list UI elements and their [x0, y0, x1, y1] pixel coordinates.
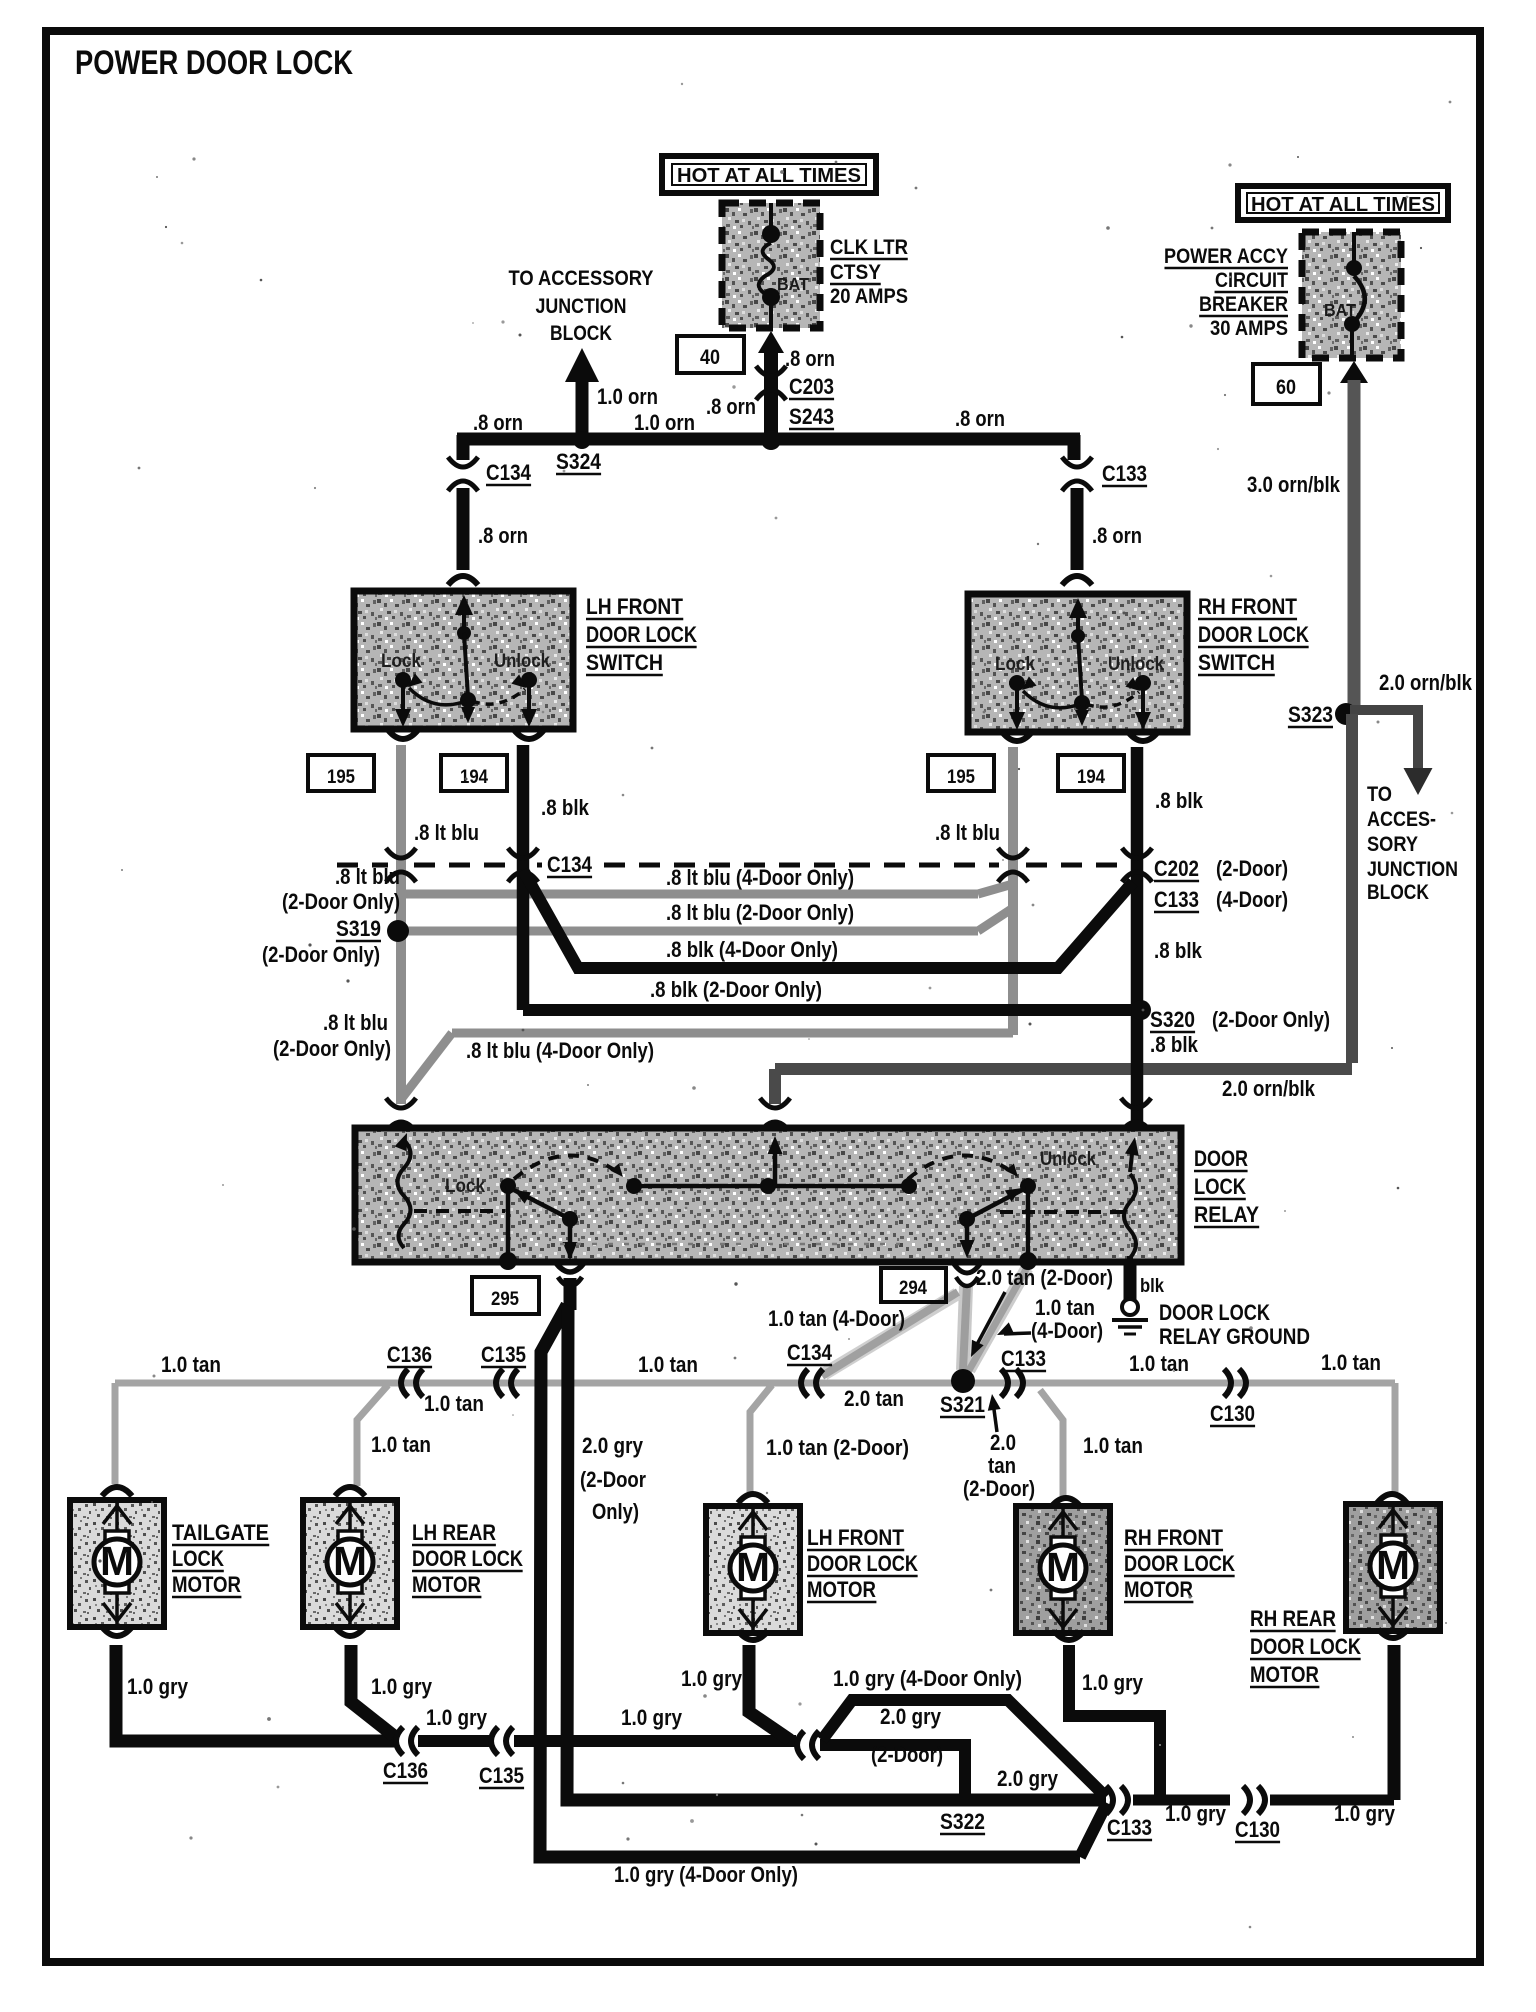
svg-text:1.0 gry (4-Door Only): 1.0 gry (4-Door Only)	[833, 1666, 1022, 1691]
svg-text:(4-Door): (4-Door)	[1216, 887, 1288, 912]
svg-text:Unlock: Unlock	[1040, 1148, 1096, 1170]
svg-text:M: M	[100, 1538, 134, 1584]
svg-text:TO: TO	[1367, 783, 1392, 806]
svg-text:.8 lt blu: .8 lt blu	[335, 864, 400, 889]
svg-text:.8 orn: .8 orn	[1092, 523, 1142, 548]
svg-text:194: 194	[460, 766, 488, 788]
svg-text:30 AMPS: 30 AMPS	[1210, 317, 1288, 340]
svg-text:MOTOR: MOTOR	[412, 1572, 481, 1597]
svg-text:CIRCUIT: CIRCUIT	[1215, 269, 1288, 292]
svg-text:.8 lt blu (4-Door Only): .8 lt blu (4-Door Only)	[666, 865, 854, 890]
svg-text:1.0 gry: 1.0 gry	[1334, 1801, 1396, 1826]
svg-text:.8 blk: .8 blk	[1154, 938, 1203, 963]
svg-text:1.0 tan (4-Door): 1.0 tan (4-Door)	[768, 1306, 905, 1331]
svg-text:1.0 gry: 1.0 gry	[426, 1705, 488, 1730]
svg-text:BAT: BAT	[777, 274, 809, 294]
svg-text:DOOR: DOOR	[1194, 1146, 1248, 1171]
svg-text:C133: C133	[1001, 1346, 1046, 1371]
svg-text:C135: C135	[479, 1763, 524, 1788]
svg-text:RELAY GROUND: RELAY GROUND	[1159, 1324, 1310, 1349]
svg-text:1.0 tan: 1.0 tan	[638, 1352, 698, 1377]
svg-text:.8 blk (4-Door Only): .8 blk (4-Door Only)	[666, 937, 838, 962]
svg-text:M: M	[1046, 1544, 1080, 1590]
svg-text:S323: S323	[1288, 702, 1333, 727]
svg-text:SWITCH: SWITCH	[586, 650, 663, 675]
svg-text:BLOCK: BLOCK	[1367, 881, 1429, 904]
svg-text:(2-Door Only): (2-Door Only)	[273, 1036, 391, 1061]
svg-text:.8 lt blu: .8 lt blu	[323, 1010, 388, 1035]
svg-text:M: M	[333, 1538, 367, 1584]
svg-text:1.0 tan: 1.0 tan	[1129, 1351, 1189, 1376]
svg-text:DOOR LOCK: DOOR LOCK	[1124, 1551, 1235, 1576]
svg-text:Lock: Lock	[381, 650, 421, 672]
svg-text:Lock: Lock	[995, 653, 1035, 675]
svg-text:TAILGATE: TAILGATE	[172, 1520, 269, 1545]
svg-text:.8 lt blu (2-Door Only): .8 lt blu (2-Door Only)	[666, 900, 854, 925]
svg-text:BLOCK: BLOCK	[550, 322, 612, 345]
svg-text:.8 lt blu: .8 lt blu	[935, 820, 1000, 845]
svg-text:1.0 gry (4-Door Only): 1.0 gry (4-Door Only)	[614, 1862, 798, 1887]
svg-text:LH REAR: LH REAR	[412, 1520, 496, 1545]
svg-text:.8 blk: .8 blk	[1155, 788, 1204, 813]
svg-text:294: 294	[899, 1277, 927, 1299]
svg-text:JUNCTION: JUNCTION	[536, 295, 627, 318]
svg-text:1.0 tan (2-Door): 1.0 tan (2-Door)	[766, 1435, 909, 1460]
svg-text:Only): Only)	[592, 1499, 639, 1524]
svg-text:DOOR LOCK: DOOR LOCK	[412, 1546, 523, 1571]
svg-text:TO ACCESSORY: TO ACCESSORY	[509, 267, 654, 290]
svg-text:C136: C136	[383, 1758, 428, 1783]
svg-text:.8 orn: .8 orn	[473, 410, 523, 435]
svg-text:40: 40	[700, 346, 720, 369]
svg-text:LH FRONT: LH FRONT	[807, 1525, 904, 1550]
svg-text:C130: C130	[1235, 1817, 1280, 1842]
svg-text:(2-Door): (2-Door)	[963, 1476, 1035, 1501]
svg-text:C133: C133	[1154, 887, 1199, 912]
svg-text:C203: C203	[789, 374, 834, 399]
svg-text:2.0 orn/blk: 2.0 orn/blk	[1379, 670, 1473, 695]
svg-text:M: M	[1376, 1542, 1410, 1588]
svg-text:.8 blk (2-Door Only): .8 blk (2-Door Only)	[650, 977, 822, 1002]
svg-text:2.0 tan: 2.0 tan	[844, 1386, 904, 1411]
svg-text:2.0 orn/blk: 2.0 orn/blk	[1222, 1076, 1316, 1101]
svg-text:JUNCTION: JUNCTION	[1367, 858, 1458, 881]
svg-text:195: 195	[327, 766, 355, 788]
svg-text:(2-Door: (2-Door	[580, 1467, 646, 1492]
svg-text:.8 orn: .8 orn	[706, 394, 756, 419]
svg-text:Lock: Lock	[445, 1175, 485, 1197]
svg-text:195: 195	[947, 766, 975, 788]
svg-text:1.0 tan: 1.0 tan	[1321, 1350, 1381, 1375]
svg-text:C134: C134	[486, 460, 532, 485]
svg-text:C136: C136	[387, 1342, 432, 1367]
svg-text:2.0 tan (2-Door): 2.0 tan (2-Door)	[976, 1265, 1113, 1290]
svg-text:2.0: 2.0	[990, 1430, 1016, 1455]
svg-text:C134: C134	[547, 852, 593, 877]
svg-text:20 AMPS: 20 AMPS	[830, 285, 908, 308]
svg-text:DOOR LOCK: DOOR LOCK	[1250, 1634, 1361, 1659]
svg-text:MOTOR: MOTOR	[172, 1572, 241, 1597]
svg-text:LOCK: LOCK	[172, 1546, 224, 1571]
svg-text:tan: tan	[988, 1453, 1016, 1478]
svg-text:CLK LTR: CLK LTR	[830, 236, 908, 259]
svg-text:(4-Door): (4-Door)	[1031, 1318, 1103, 1343]
svg-text:RELAY: RELAY	[1194, 1202, 1259, 1227]
svg-text:BAT: BAT	[1324, 300, 1356, 320]
svg-text:1.0 tan: 1.0 tan	[424, 1391, 484, 1416]
svg-text:194: 194	[1077, 766, 1105, 788]
svg-text:2.0 gry: 2.0 gry	[880, 1704, 942, 1729]
svg-text:.8 lt blu: .8 lt blu	[414, 820, 479, 845]
svg-text:.8 orn: .8 orn	[955, 406, 1005, 431]
svg-text:C134: C134	[787, 1340, 833, 1365]
svg-text:Unlock: Unlock	[1108, 653, 1164, 675]
svg-text:BREAKER: BREAKER	[1199, 293, 1288, 316]
svg-text:SORY: SORY	[1367, 833, 1418, 856]
svg-text:1.0 tan: 1.0 tan	[1083, 1433, 1143, 1458]
svg-text:1.0 gry: 1.0 gry	[127, 1674, 189, 1699]
svg-text:(2-Door): (2-Door)	[1216, 856, 1288, 881]
svg-text:LH FRONT: LH FRONT	[586, 594, 683, 619]
svg-text:M: M	[736, 1544, 770, 1590]
svg-text:HOT AT ALL TIMES: HOT AT ALL TIMES	[677, 165, 861, 187]
svg-text:2.0 gry: 2.0 gry	[582, 1433, 644, 1458]
svg-text:(2-Door): (2-Door)	[871, 1742, 943, 1767]
svg-text:1.0 tan: 1.0 tan	[161, 1352, 221, 1377]
svg-text:blk: blk	[1140, 1275, 1164, 1297]
svg-text:.8 lt blu (4-Door Only): .8 lt blu (4-Door Only)	[466, 1038, 654, 1063]
svg-text:DOOR LOCK: DOOR LOCK	[1198, 622, 1309, 647]
svg-text:DOOR LOCK: DOOR LOCK	[586, 622, 697, 647]
svg-text:RH FRONT: RH FRONT	[1198, 594, 1297, 619]
svg-text:C133: C133	[1102, 461, 1147, 486]
svg-text:S322: S322	[940, 1809, 985, 1834]
svg-text:S320: S320	[1150, 1007, 1195, 1032]
svg-text:1.0 gry: 1.0 gry	[1165, 1801, 1227, 1826]
svg-text:1.0 tan: 1.0 tan	[1035, 1295, 1095, 1320]
svg-text:MOTOR: MOTOR	[1250, 1662, 1319, 1687]
svg-text:.8 orn: .8 orn	[478, 523, 528, 548]
svg-text:DOOR LOCK: DOOR LOCK	[1159, 1300, 1270, 1325]
svg-text:POWER ACCY: POWER ACCY	[1164, 245, 1288, 268]
svg-text:MOTOR: MOTOR	[1124, 1577, 1193, 1602]
svg-text:C133: C133	[1107, 1815, 1152, 1840]
svg-text:(2-Door Only): (2-Door Only)	[282, 889, 400, 914]
svg-text:1.0 orn: 1.0 orn	[634, 410, 695, 435]
svg-text:(2-Door Only): (2-Door Only)	[1212, 1007, 1330, 1032]
svg-text:(2-Door Only): (2-Door Only)	[262, 942, 380, 967]
svg-text:LOCK: LOCK	[1194, 1174, 1246, 1199]
svg-text:C130: C130	[1210, 1401, 1255, 1426]
svg-text:3.0 orn/blk: 3.0 orn/blk	[1247, 472, 1341, 497]
svg-text:C135: C135	[481, 1342, 526, 1367]
svg-text:C202: C202	[1154, 856, 1199, 881]
svg-text:S321: S321	[940, 1392, 985, 1417]
svg-text:RH REAR: RH REAR	[1250, 1606, 1336, 1631]
svg-text:DOOR LOCK: DOOR LOCK	[807, 1551, 918, 1576]
svg-text:SWITCH: SWITCH	[1198, 650, 1275, 675]
svg-text:1.0 gry: 1.0 gry	[1082, 1670, 1144, 1695]
svg-text:.8 blk: .8 blk	[541, 795, 590, 820]
svg-text:60: 60	[1276, 376, 1296, 399]
svg-text:.8 blk: .8 blk	[1150, 1032, 1199, 1057]
svg-text:1.0 gry: 1.0 gry	[371, 1674, 433, 1699]
svg-text:1.0 tan: 1.0 tan	[371, 1432, 431, 1457]
svg-text:1.0 orn: 1.0 orn	[597, 384, 658, 409]
svg-text:.8 orn: .8 orn	[785, 346, 835, 371]
svg-text:CTSY: CTSY	[830, 261, 881, 284]
svg-text:ACCES-: ACCES-	[1367, 808, 1436, 831]
svg-text:1.0 gry: 1.0 gry	[621, 1705, 683, 1730]
svg-text:1.0 gry: 1.0 gry	[681, 1666, 743, 1691]
svg-text:S243: S243	[789, 404, 834, 429]
svg-text:POWER DOOR LOCK: POWER DOOR LOCK	[75, 44, 353, 82]
svg-text:MOTOR: MOTOR	[807, 1577, 876, 1602]
svg-text:2.0 gry: 2.0 gry	[997, 1766, 1059, 1791]
svg-text:295: 295	[491, 1288, 519, 1310]
svg-text:RH FRONT: RH FRONT	[1124, 1525, 1223, 1550]
svg-text:S319: S319	[336, 916, 381, 941]
svg-text:Unlock: Unlock	[494, 650, 550, 672]
